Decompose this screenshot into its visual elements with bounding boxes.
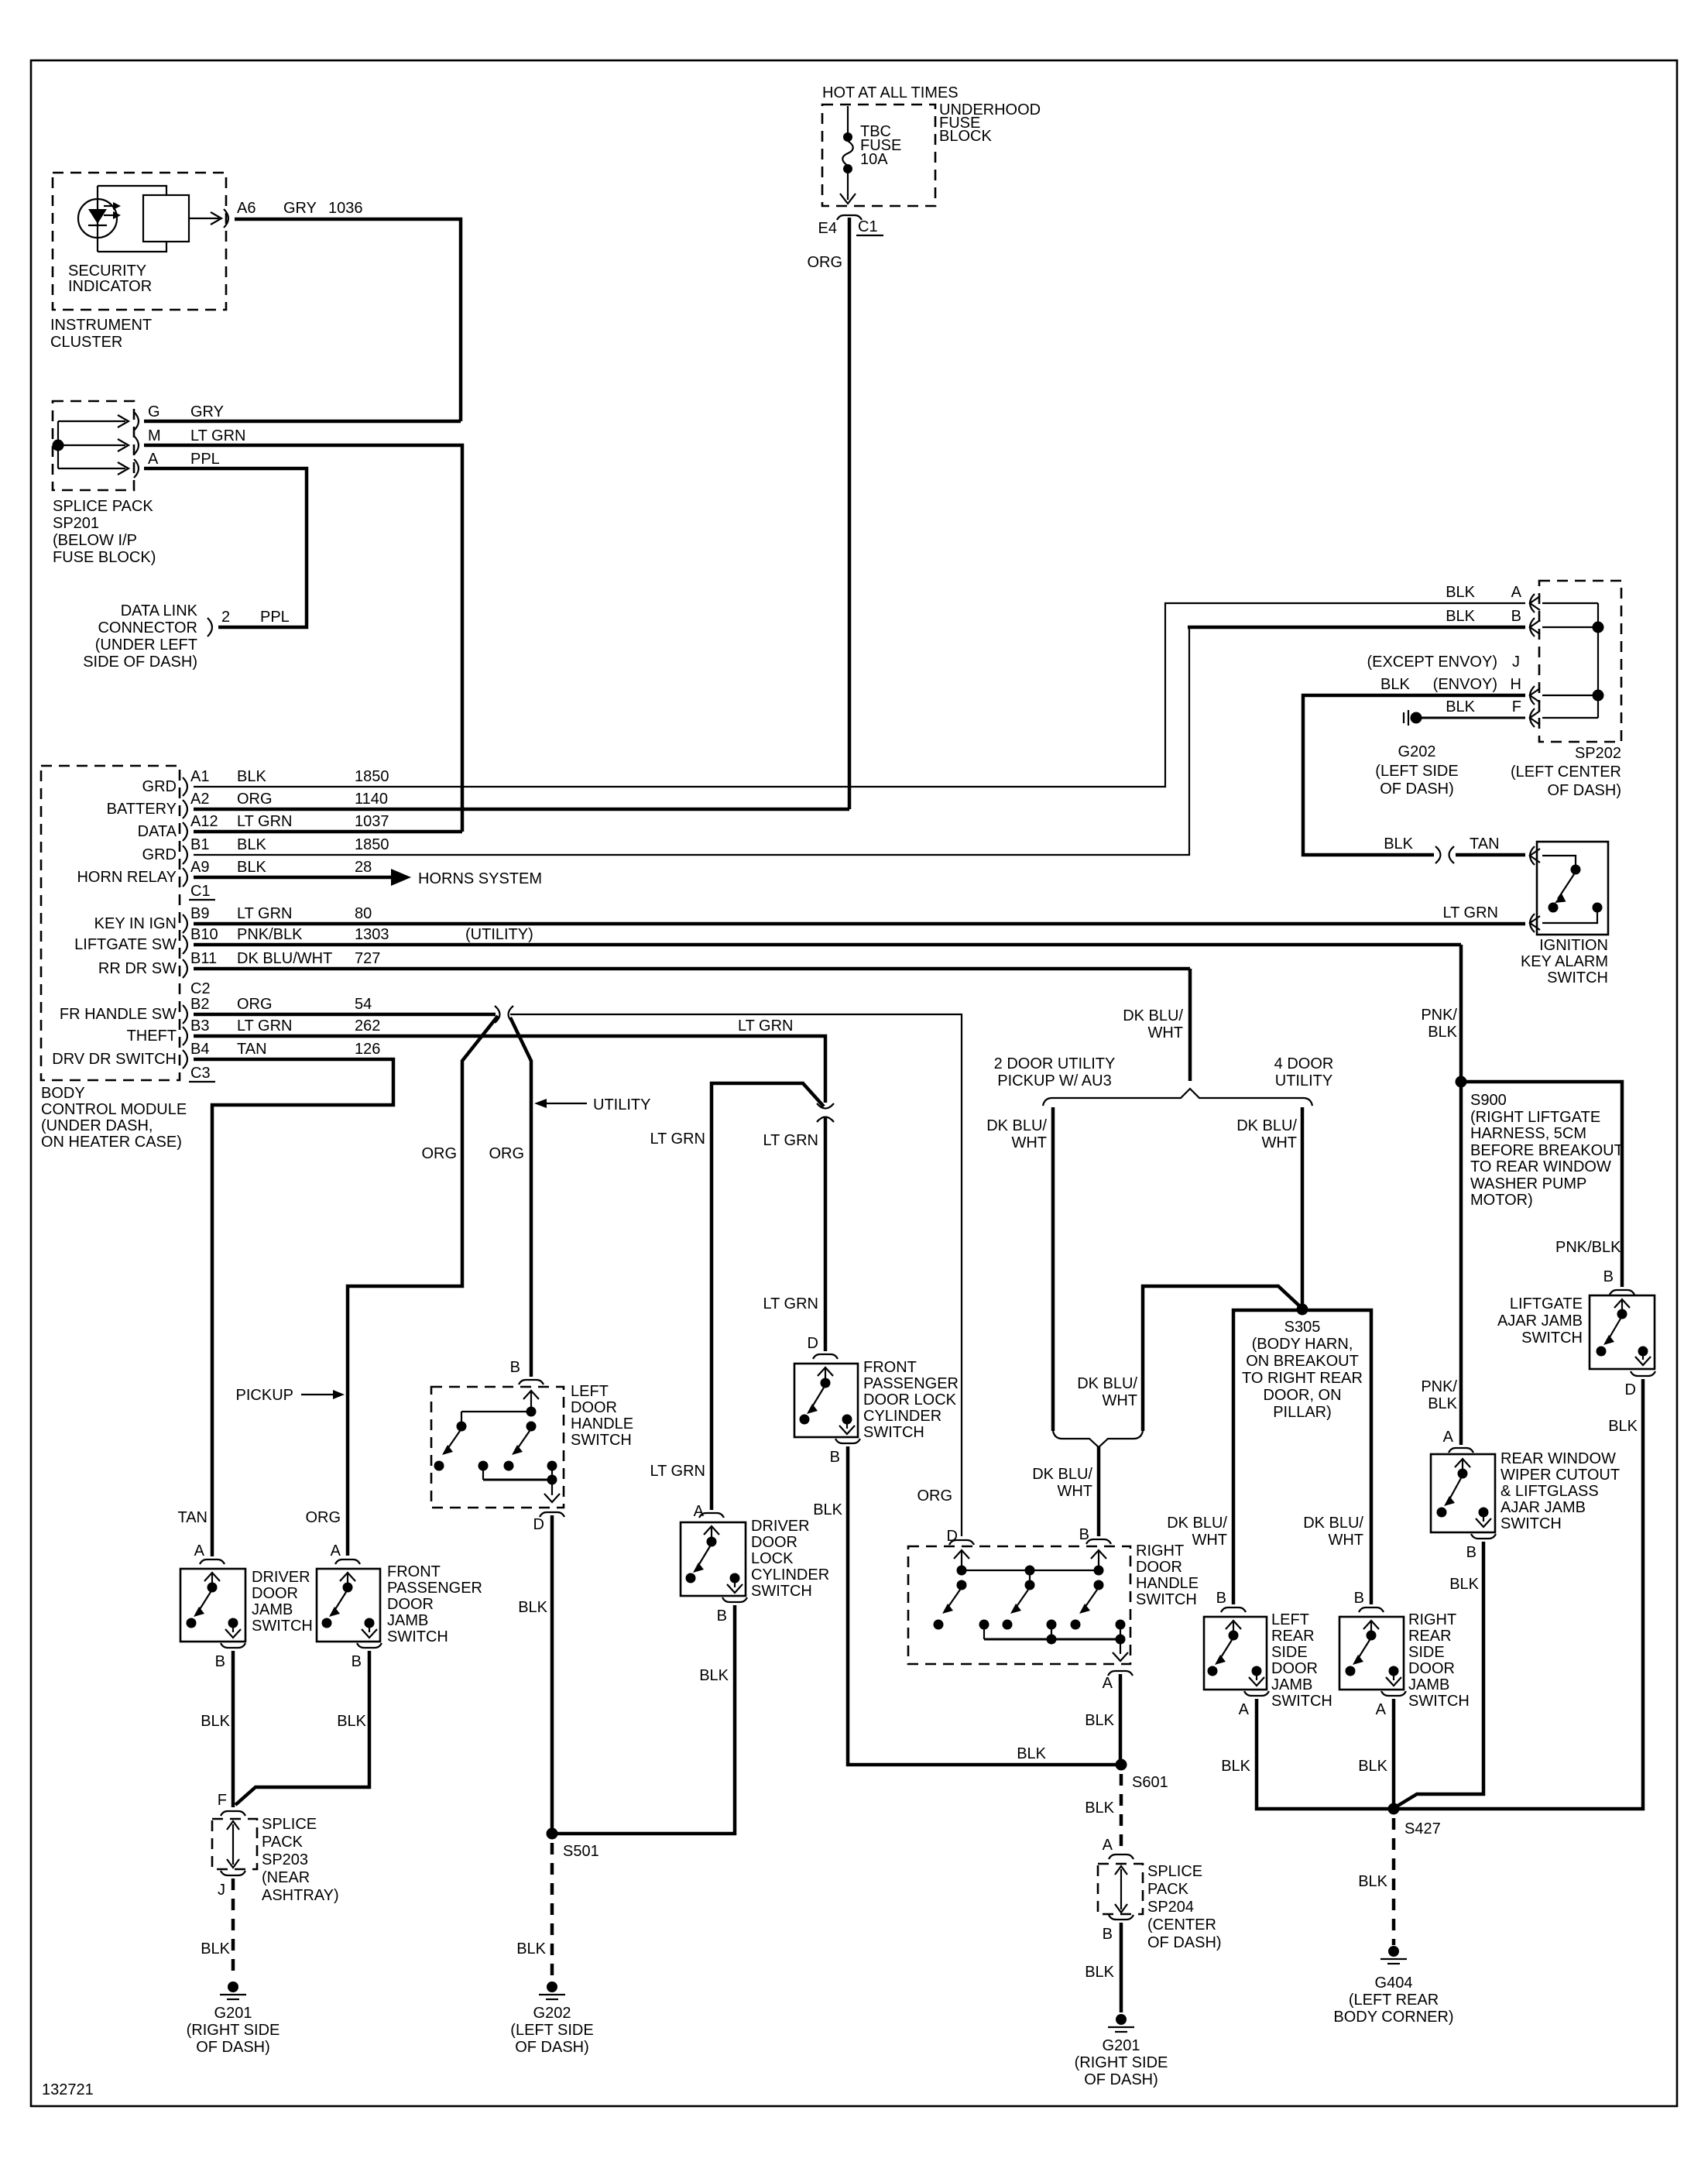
svg-text:BLK: BLK: [813, 1501, 842, 1518]
svg-text:DK BLU/: DK BLU/: [1236, 1117, 1297, 1134]
svg-text:LT GRN: LT GRN: [763, 1295, 819, 1312]
svg-text:(NEAR: (NEAR: [262, 1869, 310, 1886]
svg-text:BLK: BLK: [1608, 1418, 1638, 1435]
wire BLK S601 to SP204 A: [1120, 1774, 1123, 1851]
svg-text:A: A: [331, 1542, 341, 1559]
svg-text:10A: 10A: [860, 151, 888, 168]
wire BLK left rear jamb A to S427: [1257, 1699, 1394, 1809]
svg-text:WHT: WHT: [1057, 1483, 1092, 1500]
svg-text:132721: 132721: [42, 2081, 94, 2098]
BCM pin B2: [183, 1005, 187, 1024]
svg-text:ORG: ORG: [421, 1145, 457, 1162]
svg-text:ORG: ORG: [305, 1509, 341, 1526]
label UTILITY pointer: [534, 1099, 547, 1108]
svg-text:TAN: TAN: [1470, 835, 1500, 853]
svg-text:SPLICE: SPLICE: [1147, 1863, 1202, 1880]
fuse TBC 10A: [847, 106, 849, 133]
svg-text:B: B: [352, 1653, 362, 1670]
svg-text:SP201: SP201: [53, 515, 99, 532]
svg-text:FRONT: FRONT: [863, 1359, 917, 1376]
svg-text:BLK: BLK: [201, 1940, 230, 1957]
svg-text:B: B: [1354, 1590, 1364, 1607]
svg-text:REAR: REAR: [1271, 1628, 1315, 1645]
svg-text:HORN RELAY: HORN RELAY: [77, 869, 177, 886]
svg-text:DOOR: DOOR: [252, 1585, 298, 1602]
svg-text:LIFTGATE: LIFTGATE: [1510, 1295, 1583, 1312]
svg-text:OF DASH): OF DASH): [515, 2039, 589, 2056]
BCM pin B9: [183, 914, 187, 933]
wire BLK liftgate D to S427: [1394, 1379, 1643, 1809]
svg-text:LIFTGATE SW: LIFTGATE SW: [74, 936, 177, 953]
inline connector on LT GRN: [817, 1103, 834, 1122]
svg-text:C1: C1: [858, 218, 878, 235]
svg-text:SWITCH: SWITCH: [1408, 1693, 1470, 1710]
svg-text:(UTILITY): (UTILITY): [465, 926, 533, 943]
svg-text:JAMB: JAMB: [1271, 1676, 1312, 1693]
svg-text:F: F: [1512, 698, 1521, 715]
splice S427: [1388, 1803, 1400, 1815]
svg-text:DOOR, ON: DOOR, ON: [1263, 1387, 1341, 1404]
wire ORG BCM A2: [194, 808, 849, 811]
svg-text:A2: A2: [190, 791, 209, 808]
svg-text:PACK: PACK: [262, 1834, 304, 1851]
svg-text:SWITCH: SWITCH: [571, 1432, 632, 1449]
svg-text:DOOR: DOOR: [1136, 1559, 1182, 1576]
svg-text:MOTOR): MOTOR): [1470, 1192, 1533, 1209]
svg-text:LT GRN: LT GRN: [1443, 904, 1499, 921]
BCM pin B11: [183, 959, 187, 978]
svg-text:SECURITY: SECURITY: [68, 262, 146, 280]
wire LT GRN BCM A12: [194, 830, 462, 834]
svg-text:A12: A12: [190, 813, 218, 830]
svg-text:(EXCEPT ENVOY): (EXCEPT ENVOY): [1367, 654, 1497, 671]
svg-text:126: 126: [355, 1041, 380, 1058]
svg-text:1850: 1850: [355, 836, 389, 853]
svg-text:2 DOOR UTILITY: 2 DOOR UTILITY: [994, 1055, 1116, 1072]
svg-text:DK BLU/: DK BLU/: [1123, 1007, 1183, 1024]
svg-text:PICKUP: PICKUP: [236, 1387, 293, 1404]
svg-text:DK BLU/: DK BLU/: [1032, 1466, 1092, 1483]
svg-text:B: B: [717, 1607, 727, 1625]
svg-text:C3: C3: [190, 1065, 211, 1082]
svg-text:G: G: [148, 403, 160, 420]
svg-text:(ENVOY): (ENVOY): [1433, 676, 1497, 693]
svg-text:LT GRN: LT GRN: [237, 1017, 293, 1034]
svg-text:OF DASH): OF DASH): [1084, 2071, 1158, 2088]
svg-text:DOOR: DOOR: [1408, 1660, 1455, 1677]
svg-text:BLK: BLK: [1446, 698, 1475, 715]
svg-text:ON HEATER CASE): ON HEATER CASE): [41, 1134, 182, 1151]
svg-text:SIDE: SIDE: [1408, 1644, 1445, 1661]
wire LT GRN BCM B9 to ignition key alarm switch: [194, 922, 1525, 926]
pin A6 connector: [224, 209, 228, 228]
wire DK BLU/WHT 2-door branch: [1051, 1107, 1055, 1431]
svg-text:DOOR: DOOR: [1271, 1660, 1318, 1677]
right door handle internals: [954, 1550, 969, 1559]
svg-text:SIDE: SIDE: [1271, 1644, 1308, 1661]
svg-text:JAMB: JAMB: [252, 1601, 293, 1618]
svg-text:BLK: BLK: [1428, 1395, 1457, 1412]
svg-text:A: A: [1443, 1429, 1454, 1446]
split brace 2 door / 4 door: [1043, 1089, 1312, 1106]
svg-text:BLK: BLK: [201, 1713, 230, 1730]
svg-text:INSTRUMENT: INSTRUMENT: [50, 317, 152, 334]
svg-text:OF DASH): OF DASH): [196, 2039, 270, 2056]
svg-text:1303: 1303: [355, 926, 389, 943]
svg-text:BLK: BLK: [1428, 1024, 1457, 1041]
wire BLK front pass jamb B to SP203 F: [235, 1651, 369, 1805]
svg-text:DK BLU/: DK BLU/: [1167, 1515, 1227, 1532]
svg-text:A: A: [1239, 1701, 1250, 1718]
svg-text:ORG: ORG: [489, 1145, 524, 1162]
svg-text:HOT AT ALL TIMES: HOT AT ALL TIMES: [822, 84, 959, 101]
instrument cluster box: [53, 173, 226, 310]
svg-text:REAR: REAR: [1408, 1628, 1452, 1645]
ground G404: [1380, 1946, 1407, 1964]
inline connector C200 BLK/TAN: [1435, 846, 1454, 863]
svg-text:S601: S601: [1132, 1774, 1168, 1791]
wire LT GRN SP201-M to BCM A12: [144, 445, 462, 832]
svg-text:CONNECTOR: CONNECTOR: [98, 619, 197, 636]
svg-text:A6: A6: [237, 200, 256, 217]
svg-text:FRONT: FRONT: [387, 1563, 441, 1580]
svg-text:GRD: GRD: [142, 778, 177, 795]
svg-text:BLK: BLK: [1449, 1576, 1479, 1593]
svg-text:FR HANDLE SW: FR HANDLE SW: [60, 1006, 177, 1023]
BCM pin A12: [183, 822, 187, 841]
svg-text:WIPER CUTOUT: WIPER CUTOUT: [1501, 1467, 1620, 1484]
svg-text:B: B: [1216, 1590, 1226, 1607]
svg-text:PICKUP W/ AU3: PICKUP W/ AU3: [997, 1072, 1111, 1089]
SP201 pin A: [134, 459, 139, 478]
wire PNK/BLK B10 down to S900: [1459, 945, 1463, 1445]
splice S501: [547, 1828, 558, 1840]
svg-text:BLK: BLK: [516, 1940, 546, 1957]
svg-text:JAMB: JAMB: [387, 1612, 428, 1629]
wire ORG branch left (pickup): [348, 1016, 498, 1556]
connector E4/C1: [837, 215, 862, 220]
svg-text:1140: 1140: [355, 791, 388, 808]
svg-text:A: A: [194, 1542, 205, 1559]
svg-text:BLK: BLK: [1446, 608, 1475, 625]
svg-text:DOOR LOCK: DOOR LOCK: [863, 1391, 957, 1408]
security indicator LED: [78, 199, 117, 238]
svg-text:PILLAR): PILLAR): [1273, 1404, 1332, 1421]
svg-text:CLUSTER: CLUSTER: [50, 334, 122, 351]
BCM pin A1: [183, 777, 187, 796]
svg-text:TAN: TAN: [177, 1509, 207, 1526]
SP202 pin H: [1530, 686, 1540, 705]
svg-text:LT GRN: LT GRN: [650, 1463, 706, 1480]
svg-text:AJAR JAMB: AJAR JAMB: [1497, 1312, 1583, 1330]
wire BLK driver jamb B to SP203 F: [232, 1651, 235, 1807]
svg-text:BEFORE BREAKOUT: BEFORE BREAKOUT: [1470, 1142, 1624, 1159]
svg-text:DRV DR SWITCH: DRV DR SWITCH: [52, 1051, 177, 1068]
svg-text:DATA LINK: DATA LINK: [121, 602, 198, 619]
svg-text:BLK: BLK: [1380, 676, 1410, 693]
svg-text:S501: S501: [563, 1843, 599, 1860]
svg-text:UTILITY: UTILITY: [1275, 1072, 1332, 1089]
svg-text:PACK: PACK: [1147, 1881, 1189, 1898]
SP202 pin A: [1530, 594, 1540, 612]
svg-text:THEFT: THEFT: [127, 1028, 177, 1045]
BCM pin A9: [183, 868, 187, 887]
svg-text:SWITCH: SWITCH: [1136, 1591, 1197, 1608]
svg-text:A: A: [1511, 584, 1522, 601]
svg-text:2: 2: [221, 609, 230, 626]
svg-text:REAR WINDOW: REAR WINDOW: [1501, 1450, 1616, 1467]
svg-text:BODY CORNER): BODY CORNER): [1333, 2009, 1453, 2026]
svg-text:DOOR: DOOR: [571, 1399, 617, 1416]
svg-text:WHT: WHT: [1147, 1024, 1183, 1041]
svg-text:LOCK: LOCK: [751, 1550, 794, 1567]
svg-text:DK BLU/: DK BLU/: [1077, 1375, 1137, 1392]
svg-text:SWITCH: SWITCH: [252, 1618, 313, 1635]
svg-text:PPL: PPL: [190, 451, 220, 468]
svg-text:A1: A1: [190, 768, 209, 785]
BCM pin B10: [183, 935, 187, 954]
svg-text:PNK/: PNK/: [1421, 1378, 1457, 1395]
wire ORG BCM B2: [194, 1013, 496, 1017]
ignition switch pin top: [1530, 846, 1540, 865]
svg-text:SWITCH: SWITCH: [1521, 1330, 1583, 1347]
wire BLK G202 to F: [1422, 717, 1525, 719]
BCM pin B1: [183, 846, 187, 864]
svg-text:ON BREAKOUT: ON BREAKOUT: [1246, 1353, 1359, 1370]
svg-text:LT GRN: LT GRN: [763, 1132, 819, 1149]
svg-text:A: A: [148, 451, 159, 468]
svg-text:SWITCH: SWITCH: [751, 1583, 812, 1600]
svg-text:UTILITY: UTILITY: [593, 1096, 650, 1113]
svg-text:DK BLU/WHT: DK BLU/WHT: [237, 950, 332, 967]
svg-text:B2: B2: [190, 996, 209, 1013]
wire DK BLU/WHT to S305 from right handle branch: [1143, 1286, 1302, 1431]
splice S900: [1456, 1076, 1467, 1088]
svg-text:GRY: GRY: [283, 200, 317, 217]
svg-text:WHT: WHT: [1328, 1532, 1363, 1549]
svg-text:(LEFT SIDE: (LEFT SIDE: [1375, 763, 1458, 780]
svg-text:BLK: BLK: [337, 1713, 366, 1730]
svg-text:BLK: BLK: [237, 768, 266, 785]
wire BLK S501 to G202: [550, 1843, 554, 1979]
svg-text:ORG: ORG: [917, 1487, 952, 1505]
wire GRY 1036 from A6: [235, 219, 461, 421]
svg-text:D: D: [533, 1516, 544, 1533]
svg-text:ORG: ORG: [807, 254, 842, 271]
svg-text:HARNESS, 5CM: HARNESS, 5CM: [1470, 1125, 1586, 1142]
svg-text:CYLINDER: CYLINDER: [863, 1408, 941, 1425]
svg-text:4 DOOR: 4 DOOR: [1274, 1055, 1334, 1072]
wire BLK BCM B1 to SP202 B: [194, 629, 1189, 855]
svg-text:RIGHT: RIGHT: [1136, 1542, 1184, 1559]
svg-text:B11: B11: [190, 950, 217, 967]
wire BLK S427 to G404: [1392, 1818, 1396, 1945]
svg-text:BLK: BLK: [1085, 1964, 1114, 1981]
svg-text:J: J: [1512, 654, 1520, 671]
svg-text:1036: 1036: [328, 200, 363, 217]
svg-text:D: D: [1625, 1381, 1636, 1398]
svg-text:WHT: WHT: [1011, 1134, 1047, 1151]
svg-text:B9: B9: [190, 905, 209, 922]
wire BLK SP203 J to G201: [232, 1879, 235, 1979]
svg-text:H: H: [1511, 676, 1521, 693]
svg-text:LT GRN: LT GRN: [738, 1017, 794, 1034]
svg-text:BLK: BLK: [1085, 1712, 1114, 1729]
svg-text:HANDLE: HANDLE: [1136, 1575, 1199, 1592]
svg-text:BODY: BODY: [41, 1085, 85, 1102]
wire BLK driver lock B to S501: [552, 1605, 735, 1834]
svg-text:RIGHT: RIGHT: [1408, 1611, 1456, 1628]
svg-text:G201: G201: [214, 2005, 252, 2022]
svg-text:(LEFT SIDE: (LEFT SIDE: [510, 2022, 593, 2039]
svg-text:OF DASH): OF DASH): [1547, 782, 1621, 799]
svg-text:B10: B10: [190, 926, 218, 943]
ground G202: [539, 1981, 565, 1999]
right door handle A exit: [1108, 1671, 1133, 1676]
svg-text:J: J: [218, 1882, 225, 1899]
svg-text:BLK: BLK: [1358, 1758, 1387, 1775]
svg-text:G201: G201: [1103, 2037, 1140, 2054]
wire GRY SP201-G: [144, 420, 461, 424]
svg-text:BLOCK: BLOCK: [939, 128, 992, 145]
wire DK BLU/WHT merged to right door handle B: [1097, 1446, 1101, 1536]
wire DK BLU/WHT B11 down: [1188, 969, 1192, 1081]
wire BLK BCM A1 to SP202 A: [194, 603, 1525, 787]
svg-text:B: B: [510, 1359, 520, 1376]
svg-text:SP203: SP203: [262, 1851, 308, 1868]
svg-text:SWITCH: SWITCH: [863, 1424, 924, 1441]
wire BLK right rear jamb A to S427: [1392, 1699, 1396, 1809]
SP202 pin B: [1530, 618, 1540, 636]
wire ORG branch right (utility): [510, 1017, 531, 1377]
wire PPL SP201-A to DLC: [144, 468, 307, 627]
ignition key alarm switch: [1537, 842, 1608, 935]
wire BLK front pass lock B to S601: [848, 1446, 1116, 1765]
svg-text:A: A: [1103, 1837, 1113, 1854]
svg-text:(RIGHT SIDE: (RIGHT SIDE: [187, 2022, 280, 2039]
svg-text:DATA: DATA: [138, 823, 177, 840]
svg-text:B1: B1: [190, 836, 209, 853]
svg-text:SWITCH: SWITCH: [1501, 1515, 1562, 1532]
wire LT GRN below connector to front pass door lock D: [824, 1117, 828, 1351]
wire PNK/BLK S900 branch to liftgate ajar switch B: [1461, 1082, 1622, 1287]
svg-text:B: B: [1603, 1268, 1614, 1285]
SP201 internal bus: [57, 421, 59, 468]
svg-text:DK BLU/: DK BLU/: [986, 1117, 1047, 1134]
svg-text:WHT: WHT: [1102, 1392, 1137, 1409]
svg-text:262: 262: [355, 1017, 380, 1034]
svg-text:HANDLE: HANDLE: [571, 1415, 633, 1432]
svg-text:B: B: [215, 1653, 225, 1670]
svg-text:PNK/: PNK/: [1421, 1007, 1457, 1024]
svg-text:B: B: [1103, 1926, 1113, 1943]
SP201 pin G: [134, 412, 139, 431]
svg-text:BLK: BLK: [518, 1599, 547, 1616]
svg-text:OF DASH): OF DASH): [1147, 1934, 1222, 1951]
svg-text:28: 28: [355, 859, 372, 876]
svg-text:(BODY HARN,: (BODY HARN,: [1252, 1336, 1353, 1353]
svg-text:A: A: [1103, 1675, 1113, 1692]
svg-text:(CENTER: (CENTER: [1147, 1916, 1216, 1933]
svg-text:FUSE BLOCK): FUSE BLOCK): [53, 549, 156, 566]
svg-text:ORG: ORG: [237, 996, 273, 1013]
svg-text:(LEFT REAR: (LEFT REAR: [1349, 1992, 1439, 2009]
security indicator internal circuit loop: [98, 186, 166, 252]
svg-text:HORNS SYSTEM: HORNS SYSTEM: [418, 870, 542, 887]
svg-text:PNK/BLK: PNK/BLK: [237, 926, 303, 943]
ground G202 at SP202 F: [1411, 712, 1422, 724]
svg-text:(RIGHT LIFTGATE: (RIGHT LIFTGATE: [1470, 1109, 1600, 1126]
svg-text:BLK: BLK: [699, 1667, 729, 1684]
svg-text:KEY IN IGN: KEY IN IGN: [94, 915, 177, 932]
svg-text:F: F: [218, 1792, 227, 1809]
svg-text:AJAR JAMB: AJAR JAMB: [1501, 1499, 1586, 1516]
svg-text:(UNDER LEFT: (UNDER LEFT: [95, 636, 197, 654]
wire TAN BCM B4 to driver door jamb: [194, 1059, 393, 1556]
svg-text:CONTROL MODULE: CONTROL MODULE: [41, 1101, 187, 1118]
svg-text:LEFT: LEFT: [1271, 1611, 1309, 1628]
svg-text:LEFT: LEFT: [571, 1383, 609, 1400]
svg-text:B: B: [1511, 608, 1521, 625]
wire BLK rear window wiper B to S427: [1395, 1542, 1483, 1807]
svg-text:LT GRN: LT GRN: [190, 427, 246, 444]
svg-text:80: 80: [355, 905, 372, 922]
svg-text:DK BLU/: DK BLU/: [1303, 1515, 1363, 1532]
svg-text:S427: S427: [1404, 1820, 1441, 1837]
SP202 pin F: [1530, 709, 1540, 727]
svg-text:SWITCH: SWITCH: [1547, 969, 1608, 986]
ignition switch pin bottom: [1530, 914, 1540, 932]
svg-text:WASHER PUMP: WASHER PUMP: [1470, 1175, 1586, 1192]
svg-text:G202: G202: [533, 2005, 571, 2022]
splice S305: [1297, 1304, 1308, 1316]
BCM pin A2: [183, 800, 187, 818]
wire DK BLU/WHT S305 to right rear jamb B: [1302, 1310, 1371, 1604]
svg-text:B4: B4: [190, 1041, 209, 1058]
svg-text:SWITCH: SWITCH: [1271, 1693, 1332, 1710]
ground G201: [220, 1981, 246, 1999]
svg-text:DRIVER: DRIVER: [252, 1569, 310, 1586]
BCM pin B4: [183, 1050, 187, 1069]
svg-text:S305: S305: [1284, 1319, 1321, 1336]
svg-text:BLK: BLK: [1384, 835, 1413, 853]
BCM pin B3: [183, 1027, 187, 1045]
svg-text:SWITCH: SWITCH: [387, 1628, 448, 1645]
svg-text:OF DASH): OF DASH): [1380, 781, 1454, 798]
svg-text:E4: E4: [818, 220, 837, 237]
svg-text:(BELOW I/P: (BELOW I/P: [53, 532, 137, 549]
svg-text:B3: B3: [190, 1017, 209, 1034]
svg-text:DOOR: DOOR: [751, 1534, 797, 1551]
svg-text:(LEFT CENTER: (LEFT CENTER: [1511, 763, 1621, 781]
svg-text:SPLICE PACK: SPLICE PACK: [53, 498, 153, 515]
wire BLK A9 to horns system: [194, 876, 391, 880]
svg-text:INDICATOR: INDICATOR: [68, 278, 152, 295]
svg-text:A9: A9: [190, 859, 209, 876]
wire DK BLU/WHT S305 to left rear jamb B: [1233, 1310, 1302, 1604]
wire LT GRN BCM B3: [194, 1036, 825, 1103]
svg-text:BLK: BLK: [1446, 584, 1475, 601]
svg-text:727: 727: [355, 950, 380, 967]
svg-text:54: 54: [355, 996, 372, 1013]
inline connector on ORG wire: [495, 1006, 513, 1023]
svg-text:D: D: [808, 1335, 818, 1352]
wire DK BLU/WHT 4-door branch: [1301, 1107, 1305, 1309]
svg-text:SP204: SP204: [1147, 1899, 1194, 1916]
svg-text:M: M: [148, 427, 161, 444]
ground G201 center: [1108, 2014, 1134, 2032]
svg-text:GRY: GRY: [190, 403, 224, 420]
